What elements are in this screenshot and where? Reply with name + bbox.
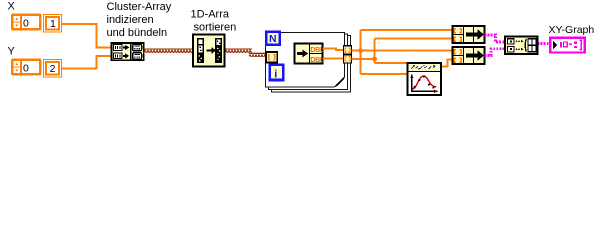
svg-text:sortieren: sortieren: [194, 22, 237, 34]
svg-text:i: i: [274, 69, 277, 81]
svg-text:0: 0: [23, 17, 29, 29]
svg-text:Cluster-Array: Cluster-Array: [107, 1, 172, 13]
svg-text:X: X: [8, 1, 16, 13]
svg-text:0: 0: [23, 62, 29, 74]
svg-text:und bündeln: und bündeln: [107, 27, 168, 39]
svg-text:XY-Graph: XY-Graph: [549, 24, 595, 36]
svg-text:N: N: [269, 33, 277, 45]
svg-text:Y: Y: [8, 46, 16, 58]
svg-text:1: 1: [50, 18, 56, 30]
svg-text:1D-Arra: 1D-Arra: [191, 9, 230, 21]
svg-text:2: 2: [50, 63, 56, 75]
svg-text:indizieren: indizieren: [107, 14, 154, 26]
